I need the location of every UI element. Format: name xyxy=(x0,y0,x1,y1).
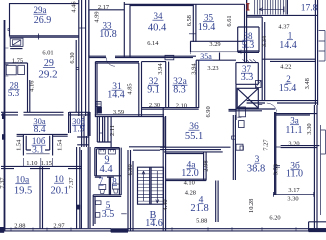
wall 33/34 xyxy=(124,2,130,57)
svg-text:7.37: 7.37 xyxy=(68,177,75,189)
svg-text:8: 8 xyxy=(112,177,117,187)
shaft wall column left xyxy=(79,0,89,147)
staircase 1 treads xyxy=(255,0,286,15)
svg-text:6.90: 6.90 xyxy=(205,106,212,117)
svg-text:6.01: 6.01 xyxy=(42,49,53,56)
wall under 29/28 row xyxy=(1,112,90,115)
svg-text:6.30: 6.30 xyxy=(69,52,76,63)
hatch ticks above room 37 xyxy=(243,59,257,61)
duct block left column xyxy=(77,116,89,147)
door threshold box 34 xyxy=(165,55,174,60)
svg-text:5.88: 5.88 xyxy=(196,218,207,225)
corridor 35a walls xyxy=(190,40,244,42)
svg-text:55.1: 55.1 xyxy=(185,131,203,142)
wall 35 right / 38 block left xyxy=(245,0,247,62)
room 5 walls xyxy=(93,195,95,226)
dim line 3.29 xyxy=(190,50,241,55)
svg-text:3.53: 3.53 xyxy=(273,164,280,175)
room 35 top wall xyxy=(196,3,245,5)
room 4a walls xyxy=(164,152,223,154)
right wall lower xyxy=(314,105,317,231)
elevator shaft xyxy=(237,88,258,108)
door arc room 2 xyxy=(267,103,277,112)
svg-text:2.10: 2.10 xyxy=(176,102,187,109)
right wall of room 10 xyxy=(77,147,82,229)
room 9 walls xyxy=(95,148,121,195)
wall 34/35 xyxy=(193,4,196,42)
svg-text:3.17: 3.17 xyxy=(288,187,300,194)
rooms 3a 3b right wall xyxy=(275,112,276,195)
door room 5 xyxy=(121,213,127,215)
svg-text:2.30: 2.30 xyxy=(149,102,160,109)
room 9 sinks xyxy=(99,150,105,154)
duct hatched box lift lobby xyxy=(256,81,262,88)
svg-text:3.30: 3.30 xyxy=(287,195,298,202)
staircase B divider xyxy=(150,167,151,204)
bottom wall window ticks xyxy=(11,227,296,231)
dim ticks 1.10 1.15 xyxy=(23,158,52,166)
svg-text:35а: 35а xyxy=(200,52,212,61)
bottom left black jamb xyxy=(0,227,4,233)
duct cells left of room 31 xyxy=(96,102,101,107)
svg-text:4.16: 4.16 xyxy=(28,81,35,92)
svg-text:1.9: 1.9 xyxy=(73,125,85,135)
svg-text:1.10: 1.10 xyxy=(26,160,37,167)
svg-text:34: 34 xyxy=(154,11,164,21)
svg-text:3.94: 3.94 xyxy=(190,63,197,75)
room 37 walls xyxy=(236,63,258,85)
balcony right top xyxy=(319,31,325,62)
rooms 1-2 left wall xyxy=(262,17,265,100)
room 3b bottom wall + dim line xyxy=(273,192,313,197)
wall between rooms 1 and 2 xyxy=(262,59,316,61)
svg-text:4.99: 4.99 xyxy=(93,11,100,22)
svg-text:4.46: 4.46 xyxy=(71,1,78,12)
svg-text:3.1: 3.1 xyxy=(32,145,44,155)
room 28 walls xyxy=(5,63,27,112)
svg-text:4.37: 4.37 xyxy=(278,24,290,31)
room 4 right wall xyxy=(216,181,218,223)
stairwell B top wall xyxy=(129,147,165,150)
room 2 bottom wall xyxy=(247,101,318,103)
svg-text:14.4: 14.4 xyxy=(279,40,297,51)
svg-text:10.28: 10.28 xyxy=(248,199,255,213)
room 32a right wall xyxy=(196,60,199,108)
red stair number 1 xyxy=(246,3,250,11)
svg-text:6.80: 6.80 xyxy=(127,164,134,175)
svg-text:4.40: 4.40 xyxy=(162,199,169,210)
staircase 1 outline xyxy=(247,0,288,17)
svg-text:3.23: 3.23 xyxy=(207,65,218,72)
room 30a bottom wall xyxy=(17,134,68,136)
room 33 walls xyxy=(89,10,124,57)
svg-text:5.3: 5.3 xyxy=(242,40,255,51)
svg-text:3.20: 3.20 xyxy=(288,140,299,147)
rooms 30a 30b walls xyxy=(69,112,90,136)
room 38 walls xyxy=(238,27,259,52)
balcony right mid xyxy=(321,125,326,215)
stairwell B right wall xyxy=(163,108,165,231)
svg-text:4.10: 4.10 xyxy=(184,180,195,187)
svg-text:7.37: 7.37 xyxy=(0,177,6,189)
door arc room 31 xyxy=(106,58,115,67)
svg-text:3.94: 3.94 xyxy=(157,63,164,75)
notch room 10 wall xyxy=(77,205,81,210)
wall below elevator xyxy=(229,84,237,120)
bottom right corner block xyxy=(309,222,326,232)
svg-text:15.4: 15.4 xyxy=(279,83,297,94)
svg-text:6.14: 6.14 xyxy=(147,40,159,47)
bottom wall of 33,34 xyxy=(89,56,196,57)
room 29a walls xyxy=(10,4,80,37)
svg-text:3.59: 3.59 xyxy=(113,109,124,116)
svg-text:29а: 29а xyxy=(34,5,47,15)
svg-text:3.48: 3.48 xyxy=(304,78,311,89)
svg-text:11.0: 11.0 xyxy=(286,169,303,180)
room 28 fixtures xyxy=(6,65,16,75)
wall 32/32a xyxy=(166,62,169,108)
svg-text:3а: 3а xyxy=(290,116,299,126)
door lift lobby xyxy=(258,104,262,106)
wall left of corridor 35a xyxy=(190,41,192,52)
room 10b box xyxy=(23,135,52,156)
room 34 top wall xyxy=(124,4,196,5)
svg-text:19.4: 19.4 xyxy=(198,22,216,33)
svg-text:7.27: 7.27 xyxy=(262,139,269,151)
svg-text:35: 35 xyxy=(204,13,214,23)
bottom outer wall xyxy=(1,229,111,231)
svg-text:2.97: 2.97 xyxy=(53,223,65,230)
svg-text:6.58: 6.58 xyxy=(186,15,193,26)
svg-text:3.34: 3.34 xyxy=(261,35,268,47)
svg-text:3.30: 3.30 xyxy=(306,123,313,134)
wall above room 5 xyxy=(93,195,121,197)
underlines for room numbers xyxy=(9,14,300,219)
svg-text:17.8: 17.8 xyxy=(301,4,318,14)
staircase B outline xyxy=(138,167,164,204)
svg-text:1.54: 1.54 xyxy=(56,139,63,151)
svg-text:2.11: 2.11 xyxy=(109,125,116,136)
svg-text:14.6: 14.6 xyxy=(145,218,163,229)
svg-text:6.61: 6.61 xyxy=(226,15,233,26)
svg-text:26.9: 26.9 xyxy=(34,15,52,26)
staircase B treads xyxy=(138,171,164,202)
duct block under room 31 xyxy=(97,116,111,147)
door leaf room 36 xyxy=(232,136,236,139)
wall under stairs xyxy=(247,15,318,17)
svg-text:1.15: 1.15 xyxy=(41,160,52,167)
stair top right wall xyxy=(315,0,317,105)
svg-text:1.75: 1.75 xyxy=(12,57,23,64)
staircase B arrows xyxy=(142,171,159,203)
top wall rooms 10a 10 xyxy=(1,166,82,168)
svg-text:2.88: 2.88 xyxy=(14,223,25,230)
wall 36 left xyxy=(163,117,165,148)
room 31 walls xyxy=(95,62,139,116)
room 3 top wall xyxy=(236,109,275,111)
room 36 bottom wall xyxy=(160,147,231,149)
balcony duct box room 29 xyxy=(10,38,23,46)
svg-text:40.4: 40.4 xyxy=(148,23,167,34)
room 29 right wall xyxy=(75,40,77,112)
left wall pilasters xyxy=(2,113,5,119)
bottom step mid xyxy=(111,228,129,232)
bathroom outer wall xyxy=(88,147,90,228)
divider wall rooms 7 8 xyxy=(109,177,110,195)
svg-text:3.29: 3.29 xyxy=(209,41,220,48)
door tick corridor xyxy=(99,132,103,134)
wall 3a/3b xyxy=(281,146,320,148)
svg-text:8.4: 8.4 xyxy=(34,125,46,135)
room 5 fixtures xyxy=(96,201,102,205)
svg-text:20.1: 20.1 xyxy=(51,186,69,197)
toilet room 8 xyxy=(112,184,119,189)
svg-text:4.4: 4.4 xyxy=(99,164,113,175)
wall 31/32 xyxy=(139,62,142,116)
svg-text:2.17: 2.17 xyxy=(98,4,110,11)
svg-text:7: 7 xyxy=(99,176,104,186)
svg-text:14.4: 14.4 xyxy=(107,90,125,101)
svg-text:38.8: 38.8 xyxy=(247,163,265,174)
left outer wall xyxy=(4,20,6,231)
wall 36 / room 3 xyxy=(233,115,235,180)
wall under room 9 xyxy=(95,176,121,177)
door line 35a xyxy=(219,53,221,61)
svg-text:4.28: 4.28 xyxy=(185,190,196,197)
svg-text:1: 1 xyxy=(288,31,293,41)
room 3a top wall xyxy=(276,114,317,115)
stair arrow xyxy=(259,7,284,13)
svg-text:29.2: 29.2 xyxy=(38,69,57,81)
svg-text:3.5: 3.5 xyxy=(102,209,115,220)
svg-text:1.54: 1.54 xyxy=(16,139,23,151)
svg-text:12.0: 12.0 xyxy=(181,168,199,179)
duct boxes right of 36 xyxy=(239,107,246,117)
stairwell B left wall xyxy=(128,150,133,231)
left wall ticks xyxy=(5,48,8,76)
svg-text:8.3: 8.3 xyxy=(173,85,186,96)
svg-text:4.22: 4.22 xyxy=(280,64,291,71)
svg-text:10.8: 10.8 xyxy=(99,29,117,40)
svg-text:4.85: 4.85 xyxy=(127,83,134,94)
toilet room 7 xyxy=(99,185,106,190)
svg-text:3.3: 3.3 xyxy=(241,72,254,83)
svg-text:21.8: 21.8 xyxy=(190,203,208,214)
svg-text:11.1: 11.1 xyxy=(285,125,302,136)
svg-text:2.98: 2.98 xyxy=(203,160,210,171)
room 31 bottom wall xyxy=(95,115,164,117)
room 32 walls xyxy=(142,62,199,110)
svg-text:6.20: 6.20 xyxy=(269,215,280,222)
svg-text:19.5: 19.5 xyxy=(14,186,32,197)
room 29a window wall xyxy=(10,36,80,37)
wall between 10a and 10 xyxy=(40,166,43,229)
svg-text:9.1: 9.1 xyxy=(147,85,160,96)
